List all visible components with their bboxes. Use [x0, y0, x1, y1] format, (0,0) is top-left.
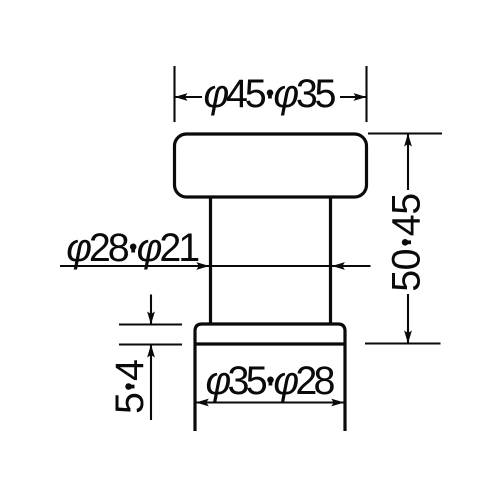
dimension φ28·φ21 : right arrowhead at stem wall — [332, 262, 345, 270]
dimension φ35·φ28 : middle dot — [267, 377, 274, 384]
dimension 5·4 : dimension line lower segment — [150, 345, 152, 420]
dimension φ45·φ35 : right extension line — [365, 66, 367, 122]
dimension 50·45 : bottom arrowhead — [404, 331, 412, 344]
dimension φ45·φ35 : dimension line right segment — [340, 96, 366, 98]
dimension φ45·φ35 : dimension line left segment — [175, 96, 202, 98]
dimension φ45·φ35 : right arrowhead — [354, 93, 367, 101]
base flange outline (rounded top corners, open bottom) — [195, 324, 345, 431]
dimension 50·45 : dimension line lower segment — [407, 294, 409, 344]
dimension 5·4 : dimension line upper segment — [150, 295, 152, 325]
dimension 50·45 : dimension line upper segment — [407, 134, 409, 191]
dimension 50·45 : middle dot — [402, 239, 409, 246]
cap outline (top knob, rounded rectangle) — [175, 134, 367, 197]
dimension 5·4 : lower arrowhead (points up) — [147, 345, 155, 358]
stem left wall — [209, 197, 212, 324]
dimension 5·4 : upper extension line — [119, 323, 182, 325]
dimension φ35·φ28 : dimension line — [196, 401, 344, 403]
dimension 5·4 : upper arrowhead (points down) — [147, 312, 155, 325]
stem right wall — [329, 197, 332, 324]
dimension φ35·φ28 : left arrowhead — [196, 399, 209, 407]
dimension 5·4 : lower extension line — [119, 343, 182, 345]
dimension φ28·φ21 : leader and dimension line — [60, 265, 371, 267]
dimension 5·4 : middle dot — [125, 383, 132, 390]
dimension φ35·φ28 : right arrowhead — [331, 399, 344, 407]
dimension φ45·φ35 : middle dot — [267, 90, 274, 97]
dimension φ45·φ35 : left arrowhead — [175, 93, 188, 101]
dimension φ28·φ21 : left arrowhead at stem wall — [196, 262, 209, 270]
dimension φ28·φ21 : middle dot — [130, 244, 137, 251]
dimension φ45·φ35 : left extension line — [173, 66, 175, 122]
dimension 50·45 : top extension line — [368, 132, 442, 134]
dimension 50·45 : bottom extension line — [365, 342, 441, 344]
dimension 50·45 : top arrowhead — [404, 134, 412, 147]
base rim line — [197, 342, 344, 345]
